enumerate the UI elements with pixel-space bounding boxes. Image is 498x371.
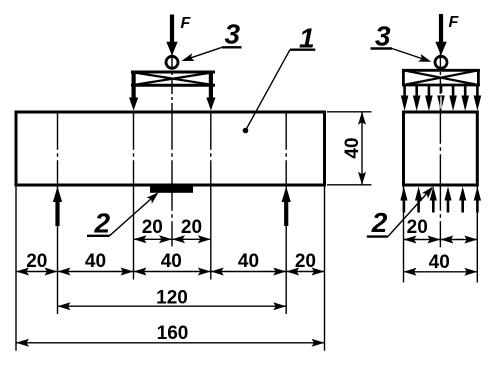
distributed reaction arrow 1	[400, 187, 407, 213]
right load centerline	[210, 112, 212, 185]
section force F arrow	[435, 14, 446, 56]
loading roller (item 3)	[166, 56, 178, 68]
beam mid centerline below beam	[171, 185, 173, 247]
callout 3 right leader	[392, 49, 429, 62]
right load arrow	[206, 71, 215, 111]
specimen beam outline (item 1)	[16, 112, 325, 185]
svg-text:F: F	[449, 14, 460, 31]
callout 2 left leader	[110, 194, 157, 236]
section dim 20 line	[404, 239, 478, 241]
right support centerline	[285, 112, 287, 185]
left load arrow	[129, 71, 138, 111]
dim row 120 line	[58, 305, 287, 307]
distributed load arrow 6	[461, 85, 469, 111]
callout 3 left underline	[222, 46, 242, 48]
distributed reaction arrow 2	[415, 187, 422, 213]
callout 2 right arrowhead	[422, 184, 436, 199]
force F arrow	[166, 15, 177, 56]
loading plate bottom edge	[131, 84, 215, 87]
dim row B arrowheads	[16, 268, 325, 276]
svg-text:F: F	[181, 15, 192, 32]
distributed reaction arrow 5	[459, 187, 466, 213]
cross-section outline	[404, 112, 478, 185]
height dim extension lines	[327, 112, 372, 185]
svg-text:2: 2	[371, 207, 388, 238]
distributed load arrow 7	[474, 85, 482, 111]
distributed reaction arrow 6	[474, 187, 481, 213]
section plate left end	[402, 69, 405, 86]
svg-text:20: 20	[142, 217, 163, 238]
callout 3 left arrowhead	[180, 53, 194, 65]
right support arrow	[282, 187, 291, 227]
distributed reaction arrow 3	[430, 187, 437, 213]
dim row 160 line	[16, 342, 325, 344]
right edge extension line	[324, 186, 326, 350]
height dim line	[361, 112, 363, 185]
loading plate top edge	[131, 71, 215, 74]
svg-text:40: 40	[342, 137, 363, 158]
svg-text:2: 2	[94, 207, 111, 238]
callout 3 left leader	[184, 47, 222, 60]
left support extension line	[57, 186, 59, 314]
callout 3 right arrowhead	[418, 54, 432, 66]
section centerline below	[439, 185, 441, 248]
left support centerline	[57, 112, 59, 185]
svg-text:20: 20	[295, 251, 316, 272]
section centerline above	[439, 53, 441, 112]
left edge extension line	[15, 186, 17, 350]
dim row 160 arrowheads	[16, 339, 325, 347]
height dim arrowheads	[358, 112, 366, 185]
svg-text:120: 120	[156, 287, 188, 308]
section plate right end	[477, 69, 480, 86]
dim row 20-20 line	[134, 238, 211, 240]
section plate bottom edge	[402, 84, 480, 87]
svg-text:40: 40	[238, 251, 259, 272]
callout 1 underline	[290, 49, 315, 51]
distributed reaction arrow 4	[444, 187, 451, 213]
dim row 120 arrowheads	[58, 302, 287, 310]
dim row 20-20 arrowheads	[134, 235, 211, 243]
svg-text:3: 3	[225, 19, 241, 50]
callout 3 right underline	[371, 47, 393, 49]
callout 2 left arrowhead	[147, 189, 162, 203]
right support extension line	[285, 186, 287, 314]
distributed load arrow 3	[425, 85, 433, 111]
section dim 40 arrowheads	[404, 268, 478, 276]
section roller (item 3)	[435, 56, 447, 68]
svg-text:160: 160	[157, 323, 189, 344]
callout 2 left underline	[87, 235, 110, 237]
support pad (item 2)	[150, 186, 193, 193]
loading plate X brace	[131, 72, 215, 85]
distributed load arrow 5	[449, 85, 457, 111]
svg-text:40: 40	[85, 251, 106, 272]
right load extension line	[210, 186, 212, 279]
section plate top edge	[402, 69, 480, 72]
svg-text:20: 20	[407, 217, 428, 238]
svg-text:20: 20	[26, 251, 47, 272]
left support arrow	[53, 187, 62, 227]
distributed load arrow 1	[401, 85, 409, 111]
distributed load arrow 4 (center)	[437, 85, 445, 111]
callout 1 leader	[246, 50, 291, 131]
svg-text:20: 20	[181, 217, 202, 238]
distributed load arrow 2	[413, 85, 421, 111]
section centerline inside	[439, 112, 441, 185]
section plate X brace	[403, 70, 478, 85]
section dim 40 line	[404, 271, 478, 273]
callout 2 right underline	[367, 235, 388, 237]
section right extension line	[476, 186, 478, 282]
section left extension line	[403, 186, 405, 282]
beam mid centerline	[171, 112, 173, 185]
dim row B line	[16, 271, 325, 273]
beam mid centerline above beam	[171, 53, 173, 112]
svg-text:40: 40	[429, 252, 450, 273]
svg-text:3: 3	[375, 21, 391, 52]
callout 1 leader dot	[243, 128, 249, 134]
left load extension line	[133, 186, 135, 279]
section dim 20 arrowheads	[404, 236, 478, 244]
callout 2 right leader	[388, 188, 432, 237]
left load centerline	[133, 112, 135, 185]
svg-text:40: 40	[161, 251, 182, 272]
